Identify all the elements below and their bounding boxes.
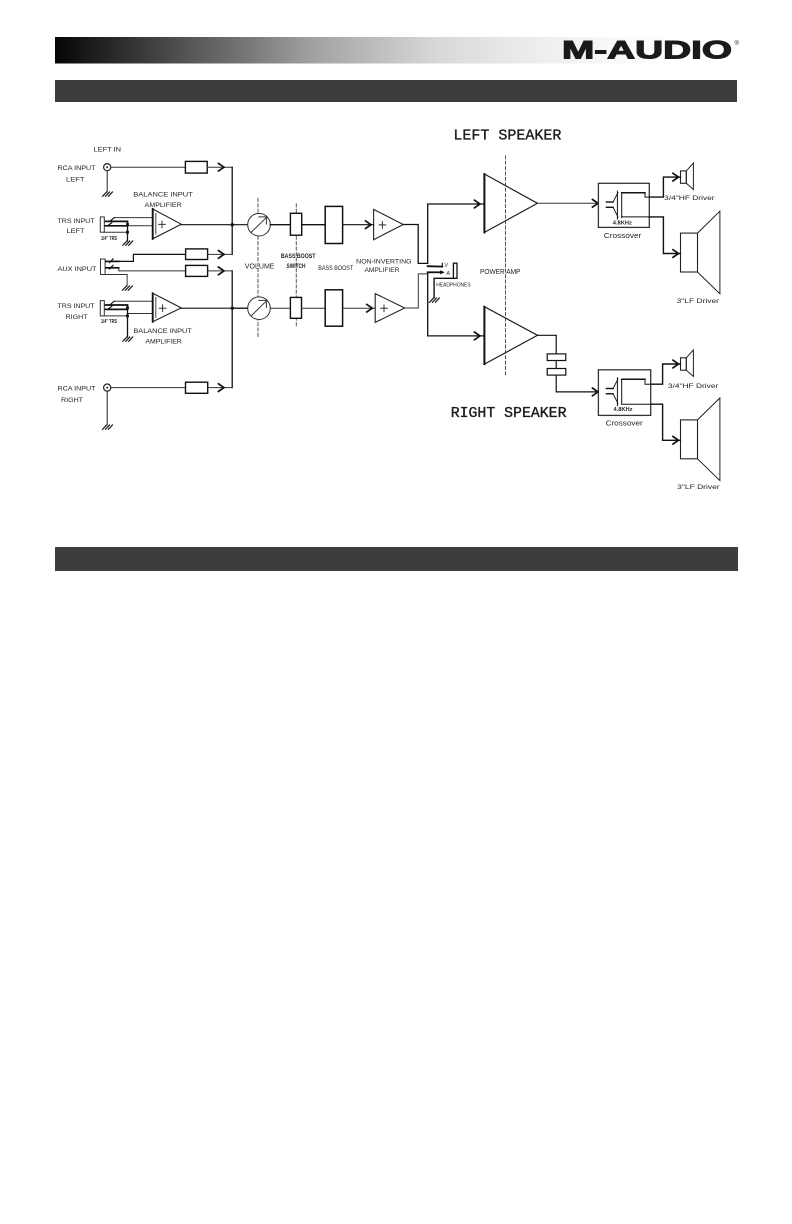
wire PA1 out to crossover1: [538, 202, 599, 204]
wire switch2 to bassboost2: [302, 307, 326, 309]
svg-text:3"LF Driver: 3"LF Driver: [677, 298, 721, 305]
svg-text:SWITCH: SWITCH: [287, 264, 306, 270]
svg-text:RCA INPUT: RCA INPUT: [58, 165, 96, 172]
crossover2 filter icon: [606, 378, 650, 406]
wire RCA-R ground drop: [106, 391, 108, 425]
wire PA2 out down to crossover2: [538, 335, 599, 392]
svg-text:®: ®: [735, 40, 740, 47]
bass boost block 1: [325, 206, 342, 243]
wire AUX-L to resistor: [119, 254, 186, 261]
svg-text:3"LF Driver: 3"LF Driver: [677, 484, 721, 491]
arrow into crossover1: [593, 200, 599, 208]
svg-text:RIGHT SPEAKER: RIGHT SPEAKER: [451, 405, 567, 422]
bass boost block 2: [325, 290, 342, 326]
svg-text:1/4" TRS: 1/4" TRS: [101, 319, 118, 325]
op-amp U4 non-inverting amp right: [375, 294, 405, 323]
ground RCA-R: [103, 425, 113, 429]
wire switch1 to bassboost1: [302, 224, 326, 226]
wire bus2 to volume2: [232, 307, 248, 309]
crossover1 filter icon: [606, 191, 649, 219]
power amp PA1 left: [484, 174, 537, 232]
arrow into NI amp1: [366, 221, 372, 229]
resistor AUX-R: [186, 265, 208, 276]
TRS jack right body: [100, 301, 104, 316]
arrow into power amp L: [475, 200, 481, 208]
resistor R-L: [185, 161, 207, 173]
arrow AUX-R into bus2: [219, 267, 225, 275]
TRS-L contact tip arm: [106, 220, 128, 222]
svg-text:TRS INPUT: TRS INPUT: [58, 218, 95, 225]
wire headphone sleeve to ground: [434, 278, 453, 297]
dashed line power amp gang: [505, 156, 507, 375]
svg-text:BASS BOOST: BASS BOOST: [318, 265, 353, 272]
TRS-R contact tip arm: [106, 304, 128, 306]
wire volume2 to switch2: [270, 307, 290, 309]
ground RCA-L: [103, 192, 113, 196]
svg-text:3/4"HF Driver: 3/4"HF Driver: [664, 195, 716, 202]
arrow into power amp R: [475, 332, 481, 340]
svg-text:A: A: [447, 271, 451, 277]
capacitor C2: [547, 369, 566, 376]
ground headphones: [430, 298, 440, 302]
wire resistor to bus1: [207, 166, 232, 168]
resistor AUX-L: [186, 249, 208, 260]
HF driver right: [681, 358, 687, 370]
wire crossover2 to HF2: [651, 364, 681, 384]
svg-text:AMPLIFIER: AMPLIFIER: [365, 267, 400, 274]
svg-text:TRS INPUT: TRS INPUT: [58, 303, 95, 310]
crossover box right: [598, 370, 650, 416]
svg-text:LEFT IN: LEFT IN: [94, 147, 122, 154]
ground TRS-R: [123, 337, 133, 341]
svg-text:RIGHT: RIGHT: [61, 397, 83, 404]
wire RCA-L ground drop: [106, 171, 108, 192]
arrow into NI amp2: [367, 304, 373, 312]
AUX contact L arm: [106, 260, 119, 262]
svg-text:BASS BOOST: BASS BOOST: [281, 254, 316, 260]
wire TRS-R sleeve bottom: [104, 315, 127, 317]
footer dark bar: [55, 547, 738, 571]
crossover box left: [598, 183, 649, 227]
arrow into HF2: [673, 360, 679, 368]
wire AUX-R resistor to bus2: [208, 270, 233, 272]
svg-text:HEADPHONES: HEADPHONES: [436, 282, 471, 288]
svg-text:AMPLIFIER: AMPLIFIER: [145, 202, 182, 209]
volume pot 1: [248, 213, 271, 236]
svg-text:AUX INPUT: AUX INPUT: [58, 266, 97, 273]
headphone jack body: [453, 263, 457, 278]
wire crossover1 to LF1: [649, 217, 680, 254]
wire U1 out to volume1: [181, 224, 248, 226]
svg-text:Crossover: Crossover: [606, 420, 644, 427]
svg-text:LEFT: LEFT: [66, 177, 85, 184]
svg-text:RCA INPUT: RCA INPUT: [58, 386, 96, 393]
wire TRS-R tip to amp: [114, 300, 153, 302]
op-amp U3 non-inverting amp left: [374, 209, 404, 239]
TRS-R contact ring arm: [106, 308, 128, 310]
junction node bus2/U2out: [231, 307, 234, 310]
wire TRS-L sleeve bottom: [104, 231, 127, 233]
svg-text:RIGHT: RIGHT: [66, 314, 88, 321]
op-amp U1 balance input amp left: [153, 209, 182, 239]
volume pot 2: [248, 297, 271, 320]
wire headphone to power amp L: [428, 204, 485, 263]
arrow RCA-R into bus2: [219, 384, 225, 392]
junction dots TRS-R: [126, 306, 129, 309]
ground AUX: [123, 286, 133, 290]
wire RCA-R to resistor: [111, 387, 186, 389]
wire U4 out to headphone A: [405, 274, 428, 308]
junction dots TRS-L: [126, 223, 129, 226]
wire resistor to bus2: [208, 387, 233, 389]
AUX jack body: [101, 259, 106, 275]
svg-text:NON-INVERTING: NON-INVERTING: [356, 258, 411, 265]
bass boost switch 1: [290, 213, 301, 235]
wire TRS-L ground drop: [127, 221, 129, 241]
wire AUX sleeve to ground: [105, 275, 127, 286]
svg-text:1/4" TRS: 1/4" TRS: [101, 236, 118, 242]
wire U3 out to headphone V: [403, 225, 428, 264]
arrow into crossover2: [593, 388, 599, 396]
LF driver right: [681, 420, 698, 459]
bass boost switch 2: [290, 297, 301, 318]
AUX contact R arm: [106, 267, 119, 269]
wire bassboost2 to NI amp2: [343, 307, 376, 309]
RCA jack left: [104, 164, 111, 171]
power amp PA2 right: [484, 307, 537, 364]
bus1 vertical wire: [231, 167, 233, 254]
svg-text:V: V: [445, 263, 449, 269]
arrow into HF1: [673, 173, 679, 181]
svg-text:AMPLIFIER: AMPLIFIER: [145, 339, 182, 346]
LF driver left: [681, 233, 698, 272]
svg-text:VOLUME: VOLUME: [245, 264, 275, 271]
svg-text:3/4"HF Driver: 3/4"HF Driver: [668, 383, 720, 390]
wire bassboost1 to NI amp1: [343, 224, 374, 226]
svg-text:Crossover: Crossover: [604, 233, 642, 240]
RCA jack right: [104, 384, 111, 391]
arrow into bus1: [219, 163, 225, 171]
wire U2 out to volume2: [181, 307, 248, 309]
wire crossover1 to HF1: [649, 177, 680, 197]
capacitor C1: [547, 354, 566, 361]
svg-text:4.8KHz: 4.8KHz: [614, 407, 633, 413]
wire TRS-L tip to amp: [114, 217, 153, 219]
dashed line bass boost switch gang: [295, 204, 297, 326]
wire TRS-L ring to amp: [128, 225, 153, 227]
op-amp U2 balance input amp right: [153, 293, 182, 322]
header dark bar: [55, 80, 737, 102]
HF driver left: [681, 171, 687, 183]
header gradient bar: [55, 37, 737, 64]
headphone contact V: [428, 265, 443, 267]
wire RCA-L to resistor: [111, 166, 186, 168]
svg-text:POWER AMP: POWER AMP: [480, 269, 521, 276]
ground TRS-L: [123, 241, 133, 245]
svg-text:BALANCE INPUT: BALANCE INPUT: [133, 328, 191, 335]
arrow AUX-L into bus1: [219, 251, 225, 259]
svg-text:LEFT: LEFT: [67, 228, 85, 235]
wire headphone to power amp R: [428, 272, 485, 336]
wire TRS-R ring to amp: [128, 309, 153, 313]
svg-text:LEFT SPEAKER: LEFT SPEAKER: [453, 127, 561, 144]
TRS-L contact ring arm: [106, 225, 128, 227]
svg-text:M-AUDIO: M-AUDIO: [562, 37, 732, 65]
arrow into LF1: [673, 250, 679, 258]
wire AUX-R to resistor: [119, 268, 186, 271]
wire crossover2 to LF2: [651, 404, 681, 440]
wire TRS-R ground drop: [127, 305, 129, 337]
dashed line volume gang: [257, 198, 259, 336]
bus2 vertical wire: [231, 271, 233, 388]
wire volume1 to switch1: [270, 224, 290, 226]
svg-text:4.8KHz: 4.8KHz: [613, 221, 632, 227]
headphone contact A: [428, 271, 442, 273]
arrow into LF2: [673, 437, 679, 445]
wire AUX-L resistor to bus1: [208, 253, 233, 255]
junction node bus1/U1out: [231, 223, 234, 226]
TRS jack left body: [100, 217, 104, 232]
resistor R-R: [186, 382, 208, 393]
svg-text:BALANCE INPUT: BALANCE INPUT: [133, 192, 193, 199]
